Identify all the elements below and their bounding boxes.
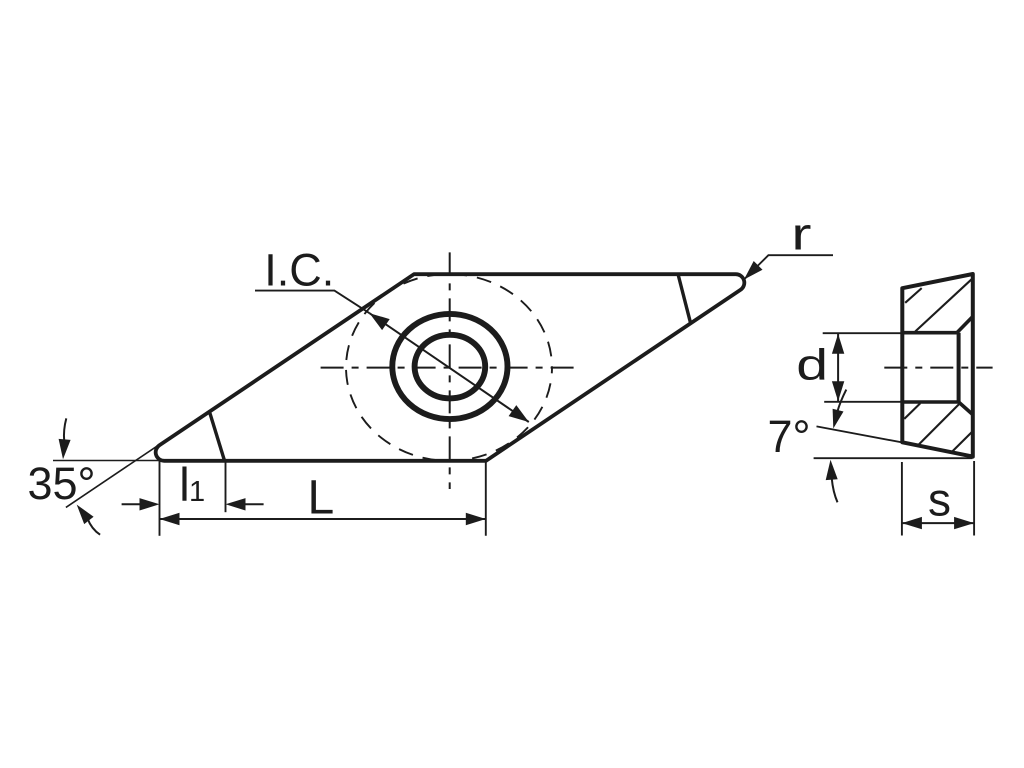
svg-text:7°: 7° bbox=[768, 411, 811, 462]
corner-radius mark at left tip bbox=[209, 412, 224, 461]
7-deg upper arrow stem bbox=[837, 390, 846, 412]
side view horizontal centerline bbox=[884, 367, 992, 369]
side view outline bbox=[902, 274, 973, 457]
svg-text:L: L bbox=[308, 472, 335, 525]
d dimension line bbox=[837, 334, 839, 401]
35-deg upper arrow stem bbox=[64, 418, 66, 441]
s left arrowhead bbox=[902, 517, 922, 529]
hatch lower 3 bbox=[952, 432, 973, 453]
hole bottom line bbox=[902, 400, 958, 404]
d extension line top bbox=[823, 332, 903, 334]
hole outer circle (countersink) bbox=[392, 314, 507, 419]
l1 dimension right tail bbox=[245, 503, 264, 505]
hole top countersink cone bbox=[957, 317, 973, 333]
corner-radius mark at right tip bbox=[678, 275, 690, 323]
svg-text:1: 1 bbox=[189, 476, 205, 508]
hole inner vertical line bbox=[957, 333, 961, 402]
hole bottom countersink cone bbox=[959, 402, 973, 415]
vertical centerline bbox=[449, 252, 451, 489]
7-deg upper arrowhead bbox=[833, 409, 844, 429]
7-deg horizontal line bbox=[814, 457, 973, 459]
hatch upper 2 bbox=[915, 279, 972, 332]
s extension line right bbox=[973, 461, 975, 536]
d top arrowhead bbox=[832, 334, 844, 354]
l1 right arrowhead bbox=[226, 498, 246, 510]
s right arrowhead bbox=[954, 517, 974, 529]
l1 extension line left bbox=[159, 461, 161, 536]
s extension line left bbox=[901, 462, 903, 536]
7-deg lower arrow stem bbox=[832, 478, 838, 502]
I.C. leader line bbox=[255, 291, 370, 314]
35-deg lower arrow stem bbox=[88, 519, 101, 535]
r arrowhead bbox=[744, 261, 763, 280]
35-deg lower arrowhead bbox=[77, 505, 94, 524]
L left arrowhead bbox=[160, 513, 180, 525]
l1 dimension left tail bbox=[122, 503, 141, 505]
35-deg thin horizontal extension bbox=[53, 460, 168, 462]
d bottom arrowhead bbox=[832, 381, 844, 401]
inscribed circle (dashed) bbox=[346, 274, 552, 461]
r leader line bbox=[744, 255, 833, 279]
horizontal centerline bbox=[321, 367, 579, 369]
I.C. arrowhead lower bbox=[509, 405, 529, 422]
s dimension line bbox=[902, 522, 974, 524]
svg-text:35°: 35° bbox=[28, 458, 96, 509]
hatch lower 1 bbox=[904, 403, 920, 419]
L dimension line bbox=[160, 518, 486, 520]
svg-text:d: d bbox=[796, 340, 828, 389]
hatch upper 1 bbox=[905, 288, 922, 303]
svg-text:r: r bbox=[791, 210, 811, 260]
7-deg slant line bbox=[817, 426, 973, 455]
hole top line bbox=[902, 331, 957, 335]
d extension line bottom bbox=[824, 401, 902, 403]
L extension line right bbox=[485, 461, 487, 536]
svg-text:s: s bbox=[928, 474, 951, 526]
l1 extension line right bbox=[225, 461, 227, 512]
7-deg lower arrowhead bbox=[826, 460, 838, 480]
l1 left arrowhead bbox=[140, 498, 160, 510]
I.C. arrowhead upper bbox=[370, 313, 390, 330]
insert outline (top view parallelogram with rounded 35-deg tips) bbox=[156, 274, 745, 461]
L right arrowhead bbox=[466, 513, 486, 525]
35-deg thin diagonal extension bbox=[66, 437, 170, 507]
svg-text:I.C.: I.C. bbox=[264, 245, 334, 296]
hole inner circle bbox=[415, 335, 486, 399]
hatch lower 2 bbox=[918, 403, 959, 445]
35-deg upper arrowhead bbox=[59, 439, 71, 459]
I.C. dimension line (diagonal) bbox=[370, 313, 529, 422]
